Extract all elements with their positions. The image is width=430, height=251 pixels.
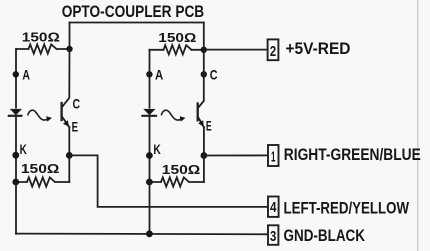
- pin label C (right transistor collector): [210, 67, 218, 83]
- pin label A (left LED anode): [22, 67, 30, 83]
- svg-text:C: C: [210, 67, 218, 83]
- svg-text:RIGHT-GREEN/BLUE: RIGHT-GREEN/BLUE: [284, 145, 421, 164]
- wire: left rail down to ground bus: [15, 182, 17, 234]
- wire: left opto output to pin 4 (down-run): [69, 155, 268, 207]
- label: 150 ohm value of R2: [158, 30, 196, 45]
- pin number 2: [270, 43, 276, 60]
- svg-text:+5V-RED: +5V-RED: [286, 39, 351, 58]
- svg-text:4: 4: [270, 199, 277, 216]
- svg-text:E: E: [206, 118, 212, 134]
- wire: ground bus to pin 3: [16, 233, 268, 236]
- label: 150 ohm value of R1: [22, 29, 60, 44]
- node K (left opto LED cathode): [12, 152, 19, 159]
- resistor R1 150ohm top left: [16, 44, 70, 53]
- light-emission arrow of left opto-coupler: [28, 110, 48, 120]
- junction dot: left rail / R3: [12, 179, 19, 186]
- svg-text:150Ω: 150Ω: [162, 162, 201, 177]
- connector pin 1 box: [268, 145, 279, 166]
- resistor R2 150ohm top right: [150, 45, 204, 54]
- connector pin 4 box: [268, 197, 279, 217]
- connector pin 3 box: [268, 225, 278, 245]
- svg-text:1: 1: [271, 148, 276, 165]
- wire: right opto output to pin 1: [204, 154, 268, 156]
- pin label E (right transistor emitter): [206, 118, 212, 134]
- pin number 4: [270, 199, 277, 216]
- svg-text:A: A: [155, 67, 163, 83]
- svg-text:150Ω: 150Ω: [22, 29, 60, 44]
- wire: left emitter rail lower segment: [68, 127, 70, 182]
- svg-text:K: K: [20, 142, 27, 157]
- pin label A (right LED anode): [155, 67, 163, 83]
- label: 150 ohm value of R4: [162, 162, 201, 177]
- wire: right emitter rail lower segment: [203, 127, 205, 182]
- page edge line (right margin): [417, 0, 419, 251]
- pin label E (left transistor emitter): [72, 118, 78, 134]
- svg-text:C: C: [73, 96, 81, 112]
- pin number 1: [271, 148, 276, 165]
- pin label K (right LED cathode): [153, 142, 161, 157]
- wire: right cathode rail down to ground bus: [149, 182, 151, 234]
- junction dot: R2 / rail / +5V wire: [201, 47, 207, 53]
- junction dot: left emitter node: [66, 152, 73, 159]
- resistor R4 150ohm bottom right: [150, 177, 204, 186]
- phototransistor Q2 of right opto-coupler: [198, 50, 204, 108]
- pin label C (left transistor collector): [73, 96, 81, 112]
- wire: +5V top bus: [70, 22, 204, 24]
- wire: from right rail to connector pin 2: [204, 49, 268, 51]
- svg-text:K: K: [153, 142, 161, 157]
- svg-text:GND-BLACK: GND-BLACK: [284, 226, 366, 245]
- svg-text:2: 2: [270, 43, 276, 60]
- phototransistor Q1 of left opto-coupler: [62, 49, 70, 108]
- node A (right opto LED anode): [146, 71, 152, 77]
- junction dot: right rail / R4: [146, 179, 153, 186]
- node C (right transistor collector on rail): [201, 71, 207, 77]
- svg-text:E: E: [72, 118, 78, 134]
- pin label K (left LED cathode): [20, 142, 27, 157]
- wire: right collector rail upper segment: [203, 23, 205, 51]
- junction dot: R1 / rail / top bus: [66, 46, 72, 52]
- svg-text:150Ω: 150Ω: [158, 30, 196, 45]
- LED D1 of left opto-coupler: [11, 109, 21, 114]
- label: 150 ohm value of R3: [21, 161, 60, 176]
- junction dot: right emitter node: [201, 152, 208, 159]
- wire: right anode rail (A): [149, 50, 151, 108]
- LED D2 of right opto-coupler: [144, 109, 154, 114]
- pin number 3: [270, 228, 276, 245]
- net label: LEFT-RED/YELLOW: [284, 199, 410, 218]
- wire: right cathode rail (K): [149, 115, 151, 182]
- net label: RIGHT-GREEN/BLUE: [284, 145, 421, 164]
- wire: left collector rail upper segment: [69, 23, 71, 50]
- resistor R3 150ohm bottom left: [16, 177, 69, 186]
- wire: left cathode rail (K): [15, 115, 17, 182]
- connector pin 2 box: [268, 39, 279, 60]
- wire: left anode rail (A): [15, 49, 17, 108]
- node K (right opto LED cathode): [146, 152, 153, 159]
- net label: +5V-RED: [286, 39, 351, 58]
- svg-text:150Ω: 150Ω: [21, 161, 60, 176]
- title: OPTO-COUPLER PCB: [62, 2, 205, 21]
- net label: GND-BLACK: [284, 226, 366, 245]
- light-emission arrow of right opto-coupler: [162, 110, 182, 120]
- svg-text:OPTO-COUPLER PCB: OPTO-COUPLER PCB: [62, 2, 205, 21]
- svg-text:3: 3: [270, 228, 276, 245]
- junction dot: right cathode rail on ground bus: [146, 230, 153, 237]
- svg-text:A: A: [22, 67, 30, 83]
- svg-text:LEFT-RED/YELLOW: LEFT-RED/YELLOW: [284, 199, 410, 218]
- node A (left opto LED anode): [13, 71, 19, 77]
